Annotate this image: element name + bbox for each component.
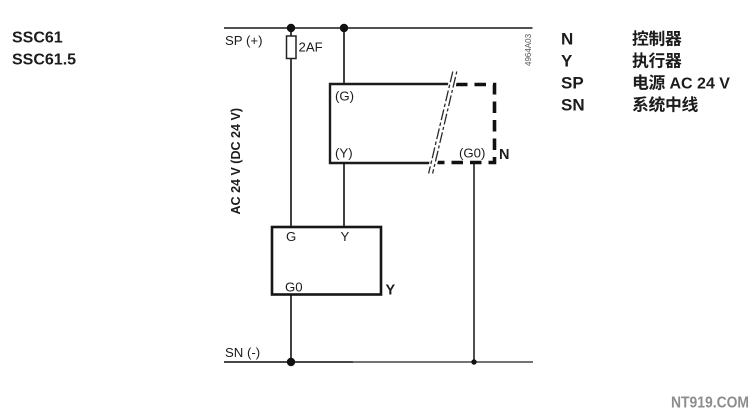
legend SN description 系统中线 <box>633 96 648 112</box>
wire SN(-) bottom neutral line right gray segment <box>353 361 533 363</box>
svg-text:SP (+): SP (+) <box>225 33 263 48</box>
svg-text:NT919.COM: NT919.COM <box>671 395 749 409</box>
wire actuator G0 down to SN vertical x=291 <box>290 295 292 362</box>
svg-text:SP: SP <box>561 74 584 93</box>
wire controller Y to actuator Y vertical x=344 <box>343 163 345 227</box>
svg-text:(G): (G) <box>335 88 354 103</box>
svg-text:G0: G0 <box>285 280 303 295</box>
svg-text:AC 24 V: AC 24 V <box>670 76 731 93</box>
svg-text:AC 24 V (DC 24 V): AC 24 V (DC 24 V) <box>228 108 243 215</box>
svg-text:2AF: 2AF <box>299 39 323 54</box>
svg-text:Y: Y <box>561 52 573 71</box>
break mark white gap band <box>431 70 456 175</box>
svg-text:4964A03: 4964A03 <box>524 33 533 66</box>
controller N box dashed continuation <box>437 85 495 163</box>
node junction dot on SP line at G wire <box>340 24 348 32</box>
svg-text:N: N <box>561 30 573 49</box>
svg-text:G: G <box>286 229 296 244</box>
legend Y description 执行器 <box>632 52 648 68</box>
wire controller G0 down to SN vertical x=474 <box>473 164 475 362</box>
svg-text:SSC61.5: SSC61.5 <box>12 52 76 69</box>
node junction dot on SN at x=474 <box>471 359 476 364</box>
wire SP(+) top supply line <box>224 27 533 29</box>
svg-text:Y: Y <box>386 283 396 299</box>
controller N box solid part <box>330 84 449 163</box>
svg-text:SN (-): SN (-) <box>225 345 260 360</box>
legend N description 控制器 <box>632 30 648 46</box>
legend SP description 电源 AC 24 V <box>634 74 648 89</box>
svg-text:(G0): (G0) <box>459 146 485 161</box>
wire fuse branch vertical x=291 <box>290 28 292 227</box>
wire SN(-) bottom neutral line left dark segment <box>224 361 353 363</box>
break mark slash line 1 <box>429 72 453 174</box>
svg-text:SSC61: SSC61 <box>12 30 63 47</box>
svg-text:SN: SN <box>561 96 585 115</box>
actuator Y1 box <box>272 227 381 295</box>
fuse F1 2AF <box>287 36 297 59</box>
break mark slash line 2 <box>433 72 457 174</box>
svg-text:(Y): (Y) <box>335 146 353 161</box>
node junction dot on SP line at fuse wire <box>287 24 295 32</box>
wire controller G branch vertical x=344 <box>343 28 345 84</box>
svg-text:Y: Y <box>341 229 350 244</box>
node junction dot on SN at x=291 <box>287 358 295 366</box>
svg-text:N: N <box>499 147 509 163</box>
